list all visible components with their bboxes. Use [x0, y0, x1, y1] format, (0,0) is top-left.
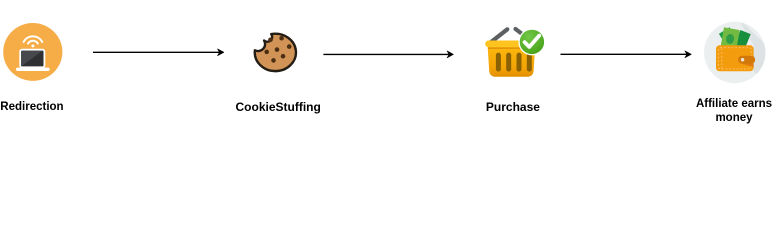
basket rim: [485, 41, 537, 48]
arrow 1: Redirection -> CookieStuffing: [93, 49, 224, 56]
arrow 3: Purchase -> Affiliate: [561, 51, 692, 58]
icon: Purchase (shopping basket with green check): [485, 28, 545, 76]
label: Purchase: [486, 101, 540, 114]
money bills: [719, 27, 751, 52]
label: CookieStuffing: [236, 101, 321, 114]
wallet body: [716, 45, 754, 71]
laptop base: [16, 68, 50, 71]
clasp button: [741, 58, 744, 61]
icon: cookie with bite: [255, 34, 296, 71]
right dark bill: [734, 30, 751, 51]
wifi arcs: [24, 36, 43, 43]
screen sheen (diagonal highlight): [21, 51, 42, 67]
wallet stitching: [718, 48, 751, 69]
chocolate chips: [264, 36, 291, 63]
label: Redirection: [0, 101, 63, 114]
basket handles: [491, 29, 527, 42]
wifi dot: [31, 44, 34, 47]
orange circle: [3, 23, 62, 81]
basket slats: [496, 53, 532, 72]
gray circle background: [704, 22, 765, 83]
label: Affiliate earns money (two lines): [684, 98, 782, 125]
green check circle: [518, 28, 545, 55]
back-left dark bill: [719, 27, 741, 52]
cookie body: [255, 34, 296, 71]
white check mark: [525, 36, 540, 47]
wallet clasp: [738, 56, 755, 64]
arrow 2: CookieStuffing -> Purchase: [323, 51, 453, 58]
main bill: [720, 27, 740, 51]
icon: Affiliate earns money (wallet with cash in gray circle): [704, 21, 775, 83]
basket body: [488, 46, 536, 77]
long shadow: [742, 21, 776, 80]
rim shadow on body: [488, 47, 535, 49]
icon: Redirection (laptop with wifi in orange circle): [3, 23, 62, 81]
clasp shadow on body: [741, 64, 754, 68]
laptop screen: [20, 50, 44, 68]
